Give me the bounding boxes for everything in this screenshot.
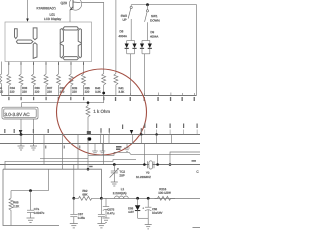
- node arrow at LCD top: [26, 19, 29, 22]
- resistor R33: [19, 62, 27, 96]
- svg-text:34: 34: [0, 87, 2, 90]
- svg-text:D9: D9: [150, 31, 154, 35]
- node TC2 tap: [113, 163, 116, 166]
- wire bottom right corner: [193, 227, 201, 229]
- svg-text:C575: C575: [107, 208, 114, 212]
- node 1k resistor top: [87, 101, 90, 104]
- svg-text:R35: R35: [85, 87, 90, 90]
- wire AC to ground stub 1: [20, 119, 22, 135]
- bus2 ticks right: [101, 130, 197, 135]
- wire AC to ground stub 2: [33, 119, 35, 135]
- wire x144.6 line3 to lineA: [144, 144, 146, 165]
- svg-text:LCD Display: LCD Display: [44, 18, 62, 22]
- svg-text:DOWN: DOWN: [150, 19, 160, 23]
- red annotation ellipse: [57, 69, 147, 155]
- svg-text:68K: 68K: [82, 193, 87, 197]
- wire top-left vertical into LCD: [27, 0, 29, 20]
- node D56 tap: [136, 197, 139, 200]
- ground C67: [70, 224, 78, 228]
- node bus2 x141: [140, 133, 142, 135]
- svg-text:2.2UH(2A): 2.2UH(2A): [113, 192, 127, 196]
- svg-text:R41: R41: [119, 87, 124, 90]
- capacitor C7a: [27, 191, 44, 218]
- svg-text:2.2K: 2.2K: [13, 205, 19, 209]
- bus1 horizontal: [2, 95, 197, 97]
- resistor R216: [155, 188, 176, 201]
- bus2 horizontal: [0, 134, 200, 136]
- trimmer capacitor TC2: [110, 165, 119, 183]
- svg-text:4.8V: 4.8V: [128, 211, 134, 214]
- svg-text:SW2: SW2: [121, 14, 128, 18]
- 7-segment digit 4: [15, 28, 38, 59]
- crystal Y0: [147, 161, 154, 169]
- svg-text:10u/16V: 10u/16V: [152, 211, 163, 215]
- capacitor C57: [103, 198, 115, 218]
- ground C7a: [27, 218, 35, 222]
- svg-text:4004A: 4004A: [150, 35, 158, 39]
- resistor R66: [9, 191, 19, 226]
- svg-text:220: 220: [47, 91, 52, 94]
- arrow onto bus2 left: [19, 130, 23, 134]
- resistor R40: [95, 74, 106, 103]
- resistor 1k Ohm: [86, 103, 90, 134]
- svg-text:10.230MHZ: 10.230MHZ: [136, 175, 151, 179]
- svg-text:C: C: [196, 170, 199, 174]
- svg-text:R34: R34: [10, 87, 15, 90]
- svg-text:L1: L1: [121, 188, 125, 192]
- resistor R38: [57, 62, 65, 96]
- bus2 pin labels left: [4, 124, 198, 134]
- zener D56: [128, 198, 148, 218]
- wire corner x170: [170, 152, 200, 165]
- node x88 lineB: [87, 168, 90, 171]
- svg-text:220: 220: [85, 91, 90, 94]
- arrow onto bus2 mid: [130, 130, 133, 134]
- tick labels below line3: [45, 146, 92, 168]
- svg-text:220: 220: [22, 91, 27, 94]
- inductor L1: [113, 188, 129, 199]
- node x170 lineA: [169, 163, 172, 166]
- wire R66 C7a top: [11, 169, 49, 190]
- resistor R37: [44, 62, 52, 96]
- wire vertical x62.5: [62, 135, 64, 170]
- svg-text:KTA88B2A(Y): KTA88B2A(Y): [36, 7, 55, 11]
- wire line A to Rk2: [73, 165, 75, 199]
- ground C5x: [97, 224, 105, 228]
- resistor R34: [7, 62, 15, 96]
- line3 horizontal: [0, 143, 200, 145]
- node bus2 x156: [155, 133, 157, 135]
- svg-text:220: 220: [0, 91, 3, 94]
- svg-text:D56: D56: [128, 207, 133, 210]
- resistor partial left edge: [0, 62, 3, 96]
- ground symbol left2: [30, 135, 37, 151]
- svg-text:Rk2: Rk2: [82, 189, 87, 193]
- switch SW2: [128, 5, 132, 41]
- node Rk2 left: [72, 197, 75, 200]
- resistor R35: [82, 62, 90, 96]
- node 1k bottom pad: [87, 131, 91, 134]
- svg-text:R66: R66: [13, 201, 18, 205]
- svg-text:3.0-3.8V AC: 3.0-3.8V AC: [4, 112, 29, 118]
- svg-text:1 k Ohm: 1 k Ohm: [93, 109, 110, 114]
- verticals bus2 to line3: [101, 135, 172, 144]
- svg-text:R36: R36: [35, 87, 40, 90]
- ground below line3 a: [92, 144, 98, 155]
- bus1 pin ticks below: [131, 93, 195, 96]
- capacitor C5x: [98, 198, 105, 223]
- svg-text:R33: R33: [22, 87, 27, 90]
- svg-text:220: 220: [35, 91, 40, 94]
- svg-text:TC2: TC2: [119, 170, 125, 174]
- svg-text:Y0: Y0: [146, 171, 150, 175]
- capacitor C58: [142, 198, 162, 224]
- svg-text:Q20: Q20: [60, 2, 67, 6]
- svg-text:220: 220: [72, 91, 77, 94]
- vertical wire from top edge to R41: [115, 0, 117, 74]
- svg-text:UP: UP: [122, 18, 126, 22]
- ground below line3 b: [100, 144, 106, 155]
- svg-text:C67: C67: [78, 213, 83, 217]
- svg-text:220: 220: [10, 91, 15, 94]
- svg-text:20P: 20P: [119, 174, 124, 178]
- svg-text:R216: R216: [159, 188, 166, 192]
- resistor Rk2 68K: [74, 189, 102, 200]
- diode pair D8: [125, 41, 137, 54]
- bottom left box wiring: [3, 169, 101, 198]
- wire vertical x88 to lineB: [87, 138, 89, 169]
- svg-text:C7a: C7a: [34, 208, 40, 212]
- svg-text:R40: R40: [95, 87, 100, 90]
- wire mid band P: [88, 152, 200, 155]
- node R40 bus junction: [102, 92, 105, 95]
- box 3.0-3.8V AC: [2, 107, 38, 119]
- LCD pin numbers bottom: [8, 62, 84, 65]
- bus1 pin labels: [8, 97, 195, 101]
- switch SW1: [145, 5, 149, 41]
- svg-text:0.0047u: 0.0047u: [34, 211, 44, 215]
- resistor R39: [69, 62, 77, 96]
- node C58 tap: [147, 197, 150, 200]
- node bus2 ac: [20, 133, 23, 136]
- wire mid band upper: [40, 158, 88, 160]
- ground symbol left: [18, 135, 25, 151]
- wire switches top rail: [131, 5, 196, 96]
- connector pad below bus2: [87, 137, 91, 140]
- svg-text:SW1: SW1: [151, 15, 158, 19]
- LCD module U-L01 box: [5, 22, 92, 62]
- svg-text:C58: C58: [152, 208, 157, 211]
- node C7a top: [29, 189, 32, 192]
- junction SW1 top: [146, 3, 149, 6]
- svg-text:L01: L01: [49, 13, 55, 17]
- svg-text:R37: R37: [47, 87, 52, 90]
- box left edge: [3, 169, 59, 225]
- net label tiny mid: [116, 146, 196, 162]
- svg-text:D8: D8: [119, 30, 123, 34]
- resistor R36: [32, 62, 40, 96]
- transistor Q20: [69, 0, 81, 10]
- svg-text:100-1/2W: 100-1/2W: [158, 191, 171, 195]
- ground TC2: [111, 182, 118, 186]
- line A horizontal: [0, 164, 200, 166]
- svg-text:R39: R39: [72, 87, 77, 90]
- AC supply wire: [22, 103, 104, 108]
- resistor R41: [114, 74, 124, 96]
- svg-text:0.25u: 0.25u: [78, 216, 85, 220]
- wire W6 main bottom rail: [101, 198, 200, 200]
- wire x157.6 lineP to lineA: [157, 155, 159, 165]
- wire vertical x44: [43, 135, 45, 165]
- diode pair D9: [140, 41, 152, 54]
- wire mid band left: [5, 160, 136, 170]
- svg-text:3.3K: 3.3K: [119, 91, 125, 94]
- svg-text:3.3K: 3.3K: [95, 91, 101, 94]
- wire vertical x78: [77, 135, 79, 170]
- svg-text:4004A: 4004A: [119, 35, 127, 39]
- node crystal right: [156, 163, 159, 166]
- ground C57: [103, 218, 110, 222]
- wire D9 to bus: [144, 54, 146, 96]
- 7-segment digit 0: [60, 27, 81, 60]
- node Rk2 right: [100, 197, 103, 200]
- svg-text:0.47u: 0.47u: [107, 212, 114, 216]
- node crystal left: [143, 163, 146, 166]
- wire Q20 emitter to LCD box: [69, 10, 71, 22]
- wire vertical x103.6: [103, 135, 105, 165]
- wire Q20 collector to R40: [82, 3, 104, 74]
- capacitor C67: [70, 198, 85, 223]
- ground below line3 c: [124, 144, 130, 152]
- ground C58: [145, 225, 152, 229]
- wire D8 to bus: [130, 54, 132, 96]
